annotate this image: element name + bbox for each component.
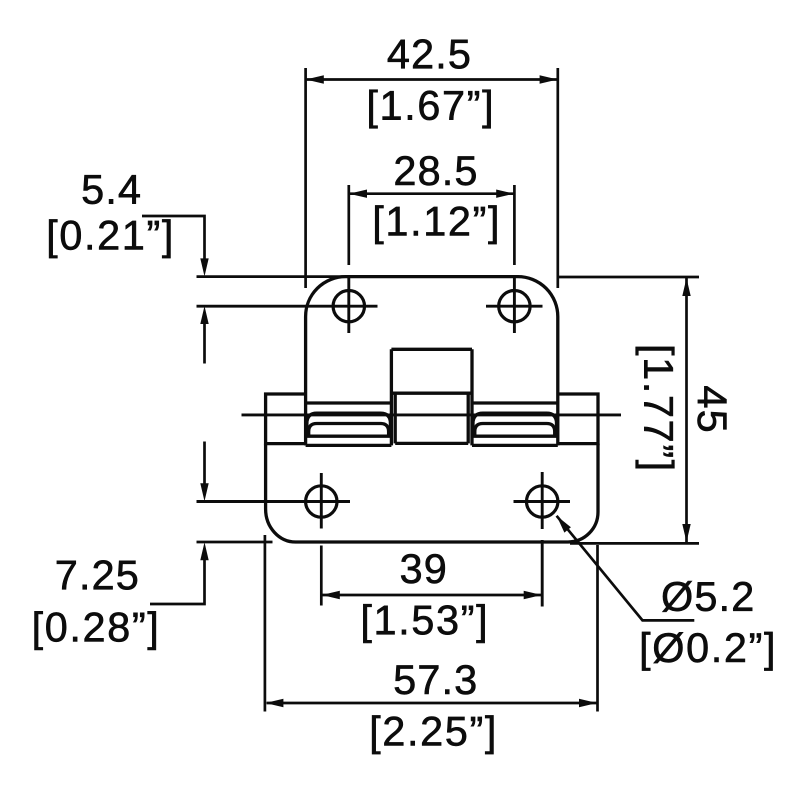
dim 45 bottom extension line bbox=[570, 542, 699, 545]
text 7.25 bbox=[57, 560, 137, 589]
dim 57.3 left extension line bbox=[264, 535, 267, 712]
crosshair bottom-right vertical bbox=[541, 472, 544, 529]
text [1.53in] bbox=[363, 604, 484, 643]
right pin cap bbox=[558, 394, 598, 444]
arrow 39 right bbox=[524, 591, 542, 599]
dim 57.3 right extension line bbox=[596, 545, 599, 712]
arrow 5.4 up to hole line bbox=[200, 306, 208, 324]
right knuckle shelf bbox=[472, 401, 558, 404]
dim 7.25 leader and lower arrow stem bbox=[150, 557, 205, 604]
text [0.28in] bbox=[35, 611, 156, 650]
hole bottom-right bbox=[527, 486, 558, 517]
left knuckle inner roll bbox=[309, 424, 389, 437]
crosshair top-left horizontal with extension bbox=[197, 305, 378, 308]
left knuckle strip bottom bbox=[306, 444, 392, 447]
text 57.3 bbox=[395, 665, 476, 694]
diameter leader line bbox=[557, 516, 695, 621]
arrow 45 up bbox=[682, 278, 690, 296]
crosshair bottom-right horizontal bbox=[514, 500, 571, 503]
arrow 42.5 left bbox=[306, 75, 324, 83]
dim 7.25 bottom extension line bbox=[197, 541, 273, 544]
text [0.21in] bbox=[49, 219, 170, 258]
arrow 57.3 left bbox=[265, 699, 283, 707]
dim 28.5 left extension line bbox=[347, 185, 350, 265]
crosshair top-left vertical bbox=[347, 277, 350, 333]
center tab top edge bbox=[391, 348, 472, 351]
dim 28.5 dimension line bbox=[350, 192, 514, 195]
crosshair top-right vertical bbox=[513, 277, 516, 333]
dim 42.5 dimension line bbox=[307, 78, 558, 81]
crosshair bottom-left horizontal with extension bbox=[197, 500, 351, 503]
text [1.77in] rotated bbox=[636, 347, 675, 468]
right knuckle strip top bbox=[472, 435, 558, 438]
top leaf outline bbox=[306, 277, 558, 446]
text 45 rotated bbox=[697, 386, 726, 431]
arrow 7.25 up to bottom edge bbox=[200, 542, 208, 560]
right knuckle strip bottom bbox=[472, 444, 558, 447]
text [1.12in] bbox=[375, 205, 496, 244]
text dia 5.2 bbox=[662, 581, 752, 612]
text [1.67in] bbox=[369, 90, 490, 129]
arrow 28.5 right bbox=[496, 190, 514, 198]
dim 39 left extension line bbox=[320, 546, 323, 606]
dim 39 dimension line bbox=[322, 594, 541, 597]
dim 5.4 leader and upper arrow stem bbox=[142, 216, 205, 262]
crosshair bottom-left vertical bbox=[320, 473, 323, 529]
hole bottom-left bbox=[306, 486, 337, 517]
arrow 42.5 right bbox=[540, 75, 558, 83]
crosshair bottom-right vertical lower part bbox=[541, 540, 544, 607]
arrow 7.25 down to hole line bbox=[200, 483, 208, 501]
center tab bottom edge bbox=[395, 442, 468, 445]
right knuckle left edge / tab right edge bbox=[470, 349, 473, 445]
center tab lower right edge bbox=[467, 393, 470, 443]
dim 5.4 top extension line bbox=[197, 275, 346, 278]
text 28.5 bbox=[395, 156, 475, 185]
dim 42.5 right extension line bbox=[556, 68, 559, 288]
text 5.4 bbox=[83, 175, 140, 204]
dim 45 dimension line bbox=[685, 278, 688, 542]
left knuckle shelf bbox=[306, 401, 392, 404]
text 39 bbox=[401, 554, 445, 583]
dim 28.5 right extension line bbox=[513, 185, 516, 265]
left knuckle strip top bbox=[306, 435, 392, 438]
left pin cap bbox=[266, 394, 306, 444]
dim 57.3 dimension line bbox=[267, 702, 597, 705]
center tab lower left edge bbox=[394, 393, 397, 443]
text [dia 0.2in] bbox=[642, 632, 773, 671]
text [2.25in] bbox=[372, 715, 493, 754]
dim 7.25 upper arrow stem bbox=[203, 442, 206, 488]
arrow 57.3 right bbox=[579, 699, 597, 707]
bottom leaf outline bbox=[266, 444, 598, 542]
arrow 39 left bbox=[322, 591, 340, 599]
hole top-left bbox=[333, 291, 364, 322]
left knuckle outer roll bbox=[307, 413, 391, 436]
right knuckle inner roll bbox=[475, 424, 555, 437]
dim 42.5 left extension line bbox=[304, 68, 307, 288]
hole top-right bbox=[499, 291, 530, 322]
right knuckle outer roll bbox=[473, 413, 557, 436]
dim 45 top extension line bbox=[558, 276, 699, 279]
center tab step line bbox=[391, 392, 472, 395]
arrow 45 down bbox=[682, 524, 690, 542]
arrow 5.4 down to plate top bbox=[200, 258, 208, 276]
arrow diameter leader bbox=[557, 516, 571, 533]
text 42.5 bbox=[388, 39, 469, 68]
crosshair top-right horizontal bbox=[486, 305, 543, 308]
left knuckle right edge / tab left edge bbox=[390, 349, 393, 445]
pin axis centerline bbox=[242, 413, 622, 416]
arrow 28.5 left bbox=[349, 190, 367, 198]
dim 5.4 lower arrow stem bbox=[203, 321, 206, 364]
